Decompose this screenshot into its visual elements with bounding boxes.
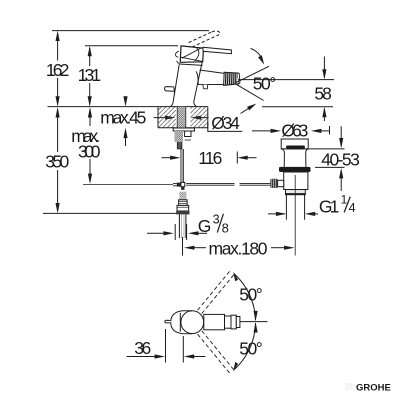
pop-up rod horizontal (to drain) [186, 183, 270, 185]
svg-text:36: 36 [134, 338, 151, 358]
dimension 36 [127, 329, 206, 363]
svg-text:50°: 50° [239, 339, 262, 359]
washer below deck [173, 128, 194, 131]
dimension max.45 arrows (deck thickness) [123, 96, 127, 146]
top-view pop-up pin [165, 320, 171, 323]
watermark [345, 383, 391, 394]
drain flange top rim [281, 139, 308, 149]
pop-up vertical rod [181, 149, 184, 182]
dimension Ø34 arrows (deck hole) [154, 116, 243, 132]
dimension 162 line [56, 31, 60, 107]
svg-text:162: 162 [46, 60, 70, 80]
dimension Ø63 arrows [252, 126, 330, 135]
handle-top reference line (131 datum) [85, 45, 178, 47]
50° arc upper [233, 272, 258, 322]
top-view body [171, 311, 204, 334]
svg-text:350: 350 [45, 152, 69, 172]
handle base block [175, 46, 203, 64]
svg-text:G: G [198, 216, 212, 236]
drain tailpipe [286, 175, 304, 256]
dimension 116 [162, 152, 257, 164]
threaded shank below washer [175, 131, 191, 149]
drain lower body [284, 172, 308, 195]
top-view spout [204, 314, 240, 329]
aerator (knurled) [224, 72, 240, 85]
svg-text:Ø63: Ø63 [281, 121, 308, 141]
supply connector (knurled) [176, 192, 189, 215]
seal reference line (40-53 bottom datum) [315, 166, 345, 168]
dimension 131 line [88, 46, 92, 107]
svg-text:4: 4 [349, 201, 356, 215]
top-view dashed swing lines (upper) [198, 270, 236, 375]
curved arrow to upper line [251, 49, 263, 61]
supply tube (G 3/8) [179, 214, 186, 238]
svg-text:Ø34: Ø34 [211, 113, 240, 133]
straight arrow to lower line [241, 107, 251, 113]
svg-text:max.180: max.180 [209, 238, 268, 258]
svg-text:max.45: max.45 [100, 108, 146, 128]
top reference line (spout height datum) [52, 30, 209, 32]
Ø34 leader [208, 122, 243, 131]
svg-text:50°: 50° [239, 284, 262, 304]
top-view swing axis line [240, 321, 268, 323]
drain plug (dark bar) [286, 146, 305, 149]
G1 1/4 fraction slash [344, 197, 350, 213]
mounting deck (hatched) [158, 107, 208, 128]
dimension 350 line [56, 107, 60, 213]
svg-text:40-53: 40-53 [321, 150, 360, 170]
G3/8 fraction slash [217, 214, 223, 233]
svg-text:G1: G1 [319, 196, 340, 216]
svg-text:1: 1 [341, 193, 348, 207]
spout [196, 70, 224, 89]
svg-text:58: 58 [314, 83, 332, 103]
faucet body (side view) [171, 58, 203, 106]
350 bottom reference line [43, 212, 177, 214]
svg-text:131: 131 [78, 65, 102, 85]
svg-text:300: 300 [78, 141, 101, 161]
lever rod (horizontal position) [203, 47, 231, 53]
svg-text:GROHE: GROHE [356, 383, 391, 394]
pop-up rod reference line (left) [83, 183, 173, 185]
svg-text:3: 3 [213, 213, 220, 227]
dimension G3/8 arrows [147, 224, 207, 240]
deck top extension line to left dims [48, 106, 159, 108]
lever rod raised (dashed) [189, 31, 220, 47]
svg-text:116: 116 [198, 148, 222, 168]
pop-up cross fitting [173, 182, 185, 189]
svg-text:50°: 50° [253, 73, 276, 93]
threaded shank in deck hole [177, 107, 186, 128]
drain rod knob (left of drain) [270, 179, 283, 188]
drain seal ring (dark) [279, 167, 311, 172]
pop-up knob (side view, left) [165, 87, 175, 95]
flange top reference line (40-53 datum) [281, 148, 345, 150]
dimension max.300 line [88, 107, 92, 184]
dimension 58 arrows [322, 57, 326, 122]
svg-text:8: 8 [222, 221, 229, 236]
dimension max.180 [183, 237, 295, 256]
50° arc lower [233, 322, 258, 372]
deck-level reference line (right, 58 datum) [262, 106, 333, 108]
drain flange skirt [282, 149, 308, 167]
dimension G1 1/4 arrows [268, 212, 318, 216]
50° spray angle lines at spout [236, 49, 335, 114]
dimension 40-53 arrows [339, 126, 343, 191]
